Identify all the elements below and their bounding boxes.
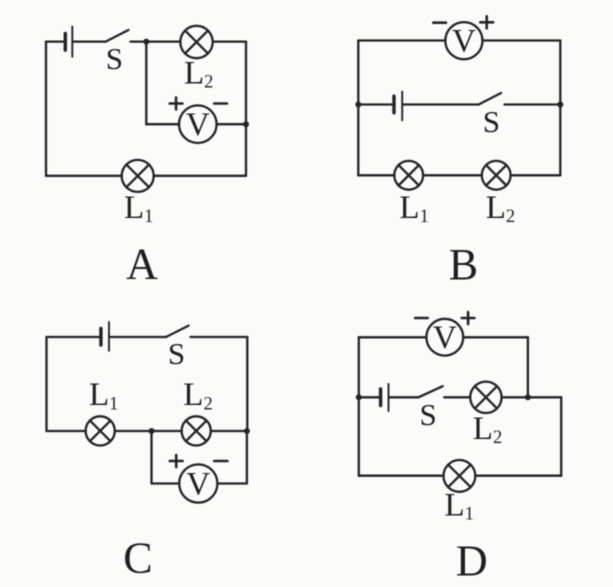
plus terminal mark of voltmeter in B xyxy=(480,16,493,28)
circuit C xyxy=(47,322,250,583)
wire C voltmeter branch right vertical xyxy=(246,431,248,484)
wire A lamp L1 to bottom-right xyxy=(154,175,246,177)
svg-text:C: C xyxy=(123,534,152,583)
wire D battery to switch xyxy=(390,396,419,398)
wire A voltmeter to right junction xyxy=(217,123,246,125)
svg-text:S: S xyxy=(419,397,436,432)
wire D left junction to battery xyxy=(359,396,380,398)
wire C left vertical xyxy=(45,337,47,431)
wire B right vertical xyxy=(559,41,561,176)
wire B switch contact to right junction xyxy=(505,103,561,105)
plus terminal mark of voltmeter in D xyxy=(462,312,475,324)
voltmeter V in A xyxy=(179,105,217,143)
lamp L1 in A xyxy=(122,160,154,192)
switch S lever in A xyxy=(106,30,129,42)
wire B top-left to voltmeter xyxy=(358,39,445,41)
switch S lever in C xyxy=(166,326,189,337)
svg-text:L1: L1 xyxy=(89,377,118,414)
wire B voltmeter to top-right xyxy=(483,39,561,41)
svg-text:L1: L1 xyxy=(124,190,153,227)
battery (cell) in D: long thin plate xyxy=(388,384,390,411)
wire B between lamps xyxy=(423,174,482,176)
junction node left end of battery row in B xyxy=(355,102,361,108)
wire A bottom-left to lamp L1 xyxy=(46,175,122,177)
wire A top-left to battery xyxy=(46,40,64,42)
svg-text:L2: L2 xyxy=(183,377,212,414)
wire D voltmeter to right drop xyxy=(463,336,528,338)
junction node on right wire of A xyxy=(243,121,249,127)
wire C junction to lamp L2 xyxy=(152,430,182,432)
wire C top-left to battery xyxy=(47,336,100,338)
plus terminal mark of voltmeter in A xyxy=(170,98,183,110)
lamp L2 in D xyxy=(470,382,501,413)
minus terminal mark of voltmeter in A xyxy=(214,102,227,105)
junction node left of L2 in C xyxy=(149,428,155,434)
switch S lever in D xyxy=(419,386,443,397)
minus terminal mark of voltmeter in B xyxy=(433,21,446,24)
battery (cell) in B: long thin plate xyxy=(401,92,403,121)
wire D right outer vertical xyxy=(560,397,562,475)
wire D bottom-left to lamp L1 xyxy=(359,475,444,477)
wire A voltmeter branch vertical xyxy=(145,42,147,125)
wire D lamp L2 to outer right xyxy=(502,396,562,398)
junction node right of L2 in C xyxy=(244,428,250,434)
minus terminal mark of voltmeter in C xyxy=(214,460,227,463)
circuit A xyxy=(46,26,249,289)
svg-text:D: D xyxy=(456,537,488,586)
battery (cell) in B: short thick plate xyxy=(392,96,395,113)
wire B left junction to battery xyxy=(358,103,392,105)
wire C voltmeter to right branch xyxy=(217,482,247,484)
wire C right vertical upper xyxy=(246,337,248,431)
voltmeter V in C xyxy=(179,464,217,502)
battery (cell) in D: short thick plate xyxy=(379,389,382,406)
wire C lamp L1 to junction xyxy=(115,430,152,432)
svg-text:L2: L2 xyxy=(473,411,502,448)
svg-text:L2: L2 xyxy=(184,55,213,92)
circuit D xyxy=(356,312,561,586)
plus terminal mark of voltmeter in C xyxy=(170,455,183,467)
svg-text:V: V xyxy=(433,320,457,356)
junction node right end of battery row in B xyxy=(557,102,563,108)
svg-text:L2: L2 xyxy=(486,190,515,227)
lamp L1 in C xyxy=(86,416,115,445)
battery (cell) in C: short thick plate xyxy=(99,328,102,345)
wire D switch contact to lamp L2 xyxy=(444,396,470,398)
voltmeter V in D xyxy=(426,319,463,356)
svg-text:L1: L1 xyxy=(445,488,474,525)
svg-text:S: S xyxy=(106,41,123,76)
voltmeter V in B xyxy=(445,22,482,59)
wire A switch contact to junction xyxy=(131,40,147,42)
wire A battery to switch xyxy=(73,40,105,42)
wire A left vertical xyxy=(45,42,47,176)
svg-text:A: A xyxy=(126,240,158,289)
wire C voltmeter branch left vertical xyxy=(150,431,152,484)
wire C switch contact to top-right xyxy=(191,336,248,338)
minus terminal mark of voltmeter in D xyxy=(415,317,428,320)
wire A lamp L2 to top-right corner xyxy=(213,40,246,42)
svg-text:S: S xyxy=(483,104,500,139)
svg-text:V: V xyxy=(186,107,210,143)
wire B left vertical xyxy=(357,41,359,176)
battery (cell) in A: long thin positive plate xyxy=(71,27,73,57)
lamp L1 in D xyxy=(444,460,476,492)
wire D top-left to voltmeter xyxy=(359,336,427,338)
junction node left end of middle row in D xyxy=(356,394,362,400)
wire A right vertical xyxy=(245,42,247,176)
lamp L2 in B xyxy=(482,161,511,190)
junction node right (voltmeter tap) in D xyxy=(525,394,531,400)
battery (cell) in C: long thin plate xyxy=(108,322,110,351)
wire D lamp L1 to bottom-right xyxy=(475,475,561,477)
wire D left vertical xyxy=(358,337,360,475)
wire C battery to switch xyxy=(110,336,166,338)
wire B battery to switch xyxy=(403,103,478,105)
svg-text:L1: L1 xyxy=(399,190,428,227)
wire C middle-left to lamp L1 xyxy=(47,430,86,432)
switch S lever in B xyxy=(479,93,501,105)
wire A branch to voltmeter xyxy=(146,123,179,125)
wire C branch to voltmeter xyxy=(152,482,180,484)
battery (cell) in A: short thick negative plate xyxy=(64,34,67,51)
wire C lamp L2 to right junction xyxy=(211,430,248,432)
svg-text:V: V xyxy=(186,466,210,502)
junction node at top of A (switch / L2 / voltmeter branch) xyxy=(143,39,149,45)
circuit B xyxy=(355,16,563,289)
wire B lamp L2 to bottom-right xyxy=(511,174,561,176)
svg-text:V: V xyxy=(452,24,476,60)
svg-text:B: B xyxy=(449,240,478,289)
lamp L2 in C xyxy=(182,416,211,445)
wire D voltmeter right vertical xyxy=(527,337,529,397)
lamp L1 in B xyxy=(394,161,423,190)
lamp L2 in A xyxy=(180,26,212,58)
wire B bottom-left to lamp L1 xyxy=(358,174,394,176)
svg-text:S: S xyxy=(168,336,185,371)
wire A junction to lamp L2 xyxy=(146,40,180,42)
